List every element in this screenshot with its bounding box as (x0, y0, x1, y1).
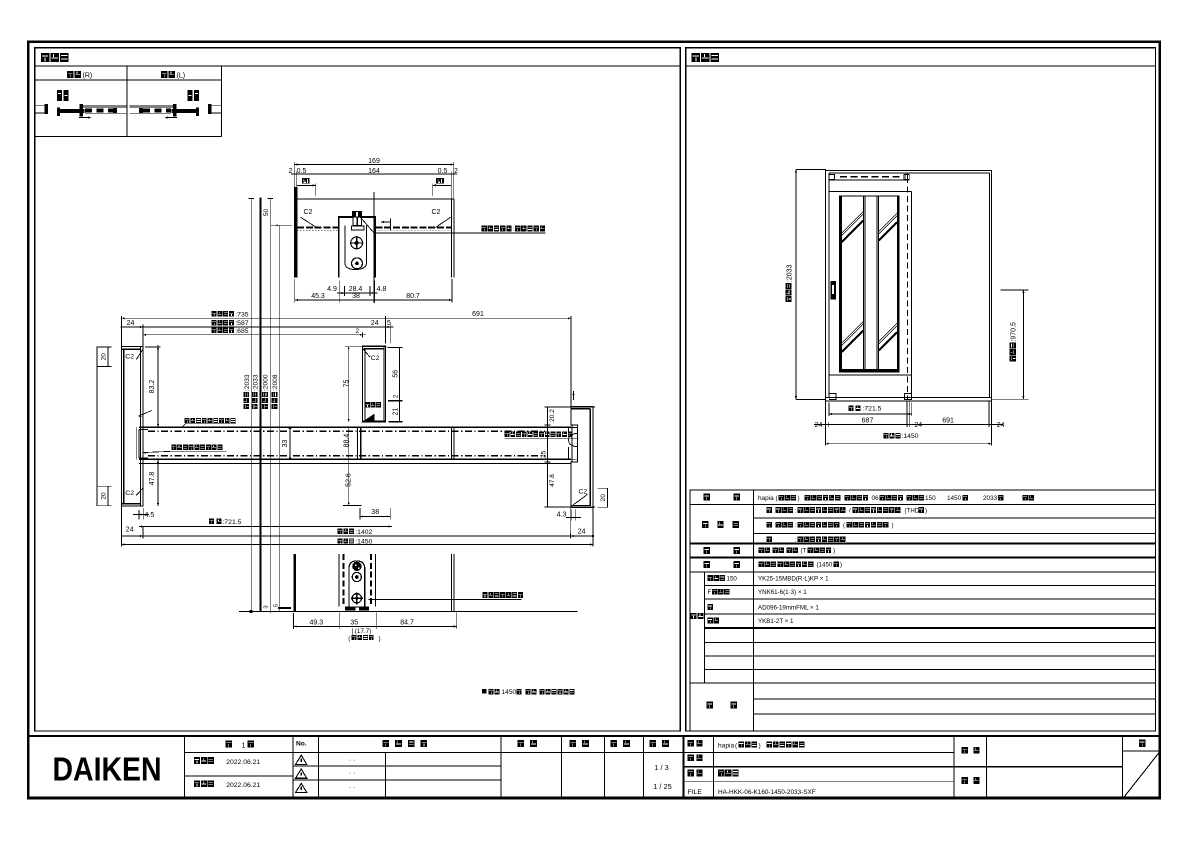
hanger bolt shaft (353, 217, 361, 226)
glass diagonal group lite2 upper (879, 213, 897, 231)
spec table row lines (690, 504, 1155, 506)
svg-text:24: 24 (914, 422, 922, 429)
svg-text:24: 24 (371, 320, 379, 327)
spec part label handle (708, 618, 713, 624)
front hidden rail dashed line (840, 176, 902, 178)
front pocket head edge pair (905, 173, 907, 180)
svg-text:24: 24 (127, 320, 135, 327)
dim chain 56/2/21 right of post (398, 348, 400, 422)
top detail dim 20 blob right (436, 178, 444, 183)
svg-text:· ·: · · (349, 757, 356, 764)
label hinban (product no) (688, 754, 694, 761)
svg-text:150: 150 (925, 495, 936, 502)
dim 75 post depth (348, 346, 350, 422)
svg-text:691: 691 (942, 417, 954, 424)
svg-text:· ·: · · (349, 770, 356, 777)
hanger bolt head (352, 211, 362, 217)
label danmenzu (section view title) (41, 53, 50, 62)
front leaf glass frame thick bars (839, 196, 842, 373)
door band outer lines (139, 426, 571, 428)
label shomenzu (front view title) (692, 53, 701, 62)
spec label yoshiki (type) (704, 494, 710, 501)
hojidate inner bold line (364, 349, 366, 421)
door band section mark pair (450, 427, 452, 459)
spec value finish row1 (767, 507, 772, 513)
svg-text:): ) (840, 562, 842, 569)
header sakusei (drawn) (611, 740, 618, 747)
front door handle (831, 281, 837, 300)
small up arrow above right jamb (573, 391, 575, 400)
schematic rail lines (130, 104, 174, 106)
svg-text:47.8: 47.8 (149, 472, 156, 486)
label shoin (962, 777, 968, 784)
svg-text:(T: (T (801, 548, 807, 555)
svg-text:1: 1 (242, 741, 246, 750)
svg-text:1 / 3: 1 / 3 (654, 763, 668, 772)
hanger housing rounded bottom (345, 262, 367, 270)
svg-text::587: :587 (235, 320, 248, 327)
schematic wall end (212, 104, 222, 106)
bottom detail guide housing arch (349, 561, 365, 607)
dim 4.5 door cap clearance (138, 510, 140, 520)
svg-text:50: 50 (263, 209, 270, 217)
plan top dim line L1 735 / 691 (122, 317, 572, 319)
svg-text:2: 2 (356, 328, 360, 335)
svg-text::2000: :2000 (263, 374, 270, 391)
svg-text:20.2: 20.2 (549, 409, 556, 422)
header hidaribiki (L) (161, 71, 167, 78)
svg-text:YK25-15MBD(R·L)KP × 1: YK25-15MBD(R·L)KP × 1 (758, 576, 829, 583)
plan bottom dim 1450 (338, 538, 343, 543)
spec part label fixed frame 150 (708, 575, 713, 581)
svg-text:2022.06.21: 2022.06.21 (226, 759, 260, 766)
left panel border (danmen-zu) (35, 48, 681, 731)
direction table grid (35, 79, 222, 81)
svg-text:F: F (708, 589, 712, 596)
dim 47.8 left jamb depth lower (157, 460, 159, 506)
height dim chain line C with rotated label (269, 198, 271, 613)
spec table column lines (753, 490, 755, 731)
right jamb rect with pocket groove (571, 407, 593, 508)
hanger door panel verticals (338, 216, 340, 277)
hanger nut bar (352, 226, 365, 230)
svg-text:691: 691 (472, 311, 484, 318)
svg-text:5: 5 (273, 604, 279, 607)
svg-text:35: 35 (350, 619, 358, 626)
svg-text:): ) (759, 742, 761, 749)
schematic latch-side post (79, 104, 83, 117)
hojidate cap label + hatch (365, 402, 370, 407)
spec label shikii (704, 561, 710, 568)
svg-text::2033: :2033 (786, 264, 793, 282)
seitei date row (185, 775, 294, 777)
revision history header (383, 740, 390, 747)
right panel border (shomen-zu) (686, 48, 1156, 731)
door V-cap arc at right jamb (569, 433, 577, 446)
height dim chain line A with rotated label (250, 198, 252, 611)
svg-text:2022.06.21: 2022.06.21 (226, 782, 260, 789)
schematic door panel (solid) (57, 109, 85, 113)
bottom detail sub-dim (17.7) (352, 628, 354, 635)
plan top dim line L3 685 / 2 (143, 334, 366, 336)
svg-text:(THD: (THD (905, 507, 920, 514)
header shukushaku (scale) (650, 740, 657, 747)
svg-text:0.5: 0.5 (438, 168, 448, 175)
leader note 3-side-frame V cap (505, 431, 510, 436)
svg-text:4.8: 4.8 (377, 286, 387, 293)
svg-text:): ) (379, 635, 381, 642)
svg-text:): ) (892, 522, 894, 529)
right jamb inner bold lines (589, 409, 591, 506)
svg-text::2008: :2008 (272, 374, 279, 391)
hanger bracket top plate (339, 216, 352, 218)
door band divider (door rear edge) (357, 427, 359, 459)
bottom detail right guide pair (450, 554, 452, 611)
right jamb 20 dim (597, 487, 608, 489)
svg-text:C2: C2 (432, 209, 441, 216)
schematic rail lines (83, 104, 127, 106)
hojidate post rect (pocket stile) (363, 346, 386, 422)
title band line left panel (35, 65, 681, 67)
bottom detail roller circle (352, 572, 361, 581)
svg-text:4.5: 4.5 (145, 512, 155, 519)
top detail inner dim line 4.9/28.4/4.8 (339, 281, 341, 298)
plan top dim extension lines (121, 316, 123, 347)
front leaf bottom rail line (829, 374, 911, 376)
front door leaf outline (829, 191, 911, 193)
svg-text:hapia: hapia (718, 742, 734, 749)
svg-text:38: 38 (371, 509, 379, 516)
glass diagonal group lite2 mid (879, 323, 897, 341)
sheet note: drawing shows 1450 width right-sliding (482, 689, 487, 694)
leader flat rail note (369, 599, 522, 601)
left jamb rect (fixed frame in plan) (122, 347, 144, 507)
bottom detail door panel verticals (338, 554, 340, 606)
front dim handle-height 970.5 (1022, 290, 1024, 400)
svg-text::1450: :1450 (902, 433, 919, 440)
spec value rail row (759, 561, 764, 567)
front leaf mid stile lines (862, 196, 864, 369)
title block header row line (185, 751, 684, 753)
svg-text::721.5: :721.5 (863, 406, 882, 413)
glass diagonal group lite1 upper (842, 212, 864, 234)
svg-text:24: 24 (997, 422, 1005, 429)
svg-text:(L): (L) (177, 73, 186, 80)
svg-text:25: 25 (541, 451, 548, 459)
svg-text:YKB1-2T × 1: YKB1-2T × 1 (758, 618, 794, 625)
revision rows lines (293, 765, 501, 767)
top detail pointer arrow at rail (381, 221, 390, 223)
svg-text:20: 20 (600, 494, 607, 502)
svg-text:80.7: 80.7 (406, 293, 420, 300)
schematic wall end (35, 104, 45, 106)
header kakunin (checked) (570, 740, 577, 747)
schematic latch-side post (173, 104, 177, 117)
svg-text:C2: C2 (125, 353, 134, 360)
svg-text:): ) (833, 548, 835, 555)
bottom detail dim line 49.3/35/84.7 (293, 613, 295, 629)
svg-text:24: 24 (578, 528, 586, 535)
spec part label door (708, 604, 713, 610)
spec label biko (remarks) (707, 702, 713, 709)
front pocket dashed line (906, 177, 908, 399)
svg-text:(R): (R) (83, 73, 93, 80)
svg-text:C2: C2 (304, 209, 313, 216)
top detail head underside heavy dashed line right part (375, 226, 451, 228)
leader note door-edge cap (171, 445, 176, 450)
svg-text:C2: C2 (371, 355, 380, 362)
top detail head box top line (294, 198, 454, 200)
spec value finish row2 (767, 522, 772, 528)
svg-text::721.5: :721.5 (223, 519, 242, 526)
spec label shiage (finish) (702, 521, 708, 528)
svg-text:): ) (925, 507, 927, 514)
dim 83.2 left jamb depth upper (157, 347, 159, 428)
schematic lower wall line (85, 112, 127, 114)
top detail centerline (373, 192, 375, 303)
svg-text:56: 56 (393, 370, 400, 378)
svg-text:2033: 2033 (983, 495, 998, 502)
label zumei (drawing name) (688, 770, 694, 777)
svg-text:4.9: 4.9 (327, 286, 337, 293)
front door feet (829, 393, 836, 399)
front dim frame width 1450 (884, 433, 889, 439)
svg-text:164: 164 (368, 168, 380, 175)
svg-text:45.3: 45.3 (311, 293, 325, 300)
first edition cell (226, 740, 233, 747)
plan bottom dim tobira-haba 721.5 (209, 519, 214, 524)
front dim extension lines (825, 402, 827, 446)
spec value handle row (759, 547, 764, 553)
spec value finish row3 (767, 536, 772, 542)
svg-text:No.: No. (296, 741, 307, 748)
svg-text:88.4: 88.4 (344, 434, 351, 448)
top detail dim 169 (294, 164, 454, 166)
spec label totte (handle) (704, 547, 710, 554)
floor line (239, 611, 578, 613)
dim 88.4 at door band (348, 427, 350, 459)
dim 50 at head (271, 224, 292, 226)
label sakumei (962, 747, 968, 754)
svg-text::1402: :1402 (355, 529, 372, 536)
svg-text:C2: C2 (579, 489, 588, 496)
svg-text:2: 2 (392, 394, 399, 398)
front head line (829, 179, 910, 181)
svg-text:1 / 25: 1 / 25 (653, 782, 672, 791)
schematic slide arrow (79, 117, 91, 119)
svg-text:150: 150 (727, 576, 738, 583)
svg-text:06: 06 (872, 495, 880, 502)
svg-text:2: 2 (454, 168, 458, 175)
svg-text:· ·: · · (349, 785, 356, 792)
page cell (1139, 740, 1146, 747)
header shonin (approved) (518, 740, 525, 747)
front frame corner blocks (829, 174, 835, 179)
page diagonal (1123, 752, 1159, 798)
bottom detail left frame post (293, 554, 296, 611)
hojidate bottom thick edge (363, 421, 386, 423)
schematic door panel (solid) (171, 109, 199, 113)
svg-text:28.4: 28.4 (349, 286, 363, 293)
svg-text::735: :735 (235, 311, 248, 318)
dim chain 20.2/25/47.8 at right jamb (547, 407, 549, 508)
spec table outer (690, 490, 1155, 731)
svg-text::685: :685 (235, 328, 248, 335)
svg-text::2033: :2033 (244, 374, 251, 391)
leader line tsurisha rail (hanging rail note) (360, 217, 374, 233)
bottom detail screw circle cross (352, 594, 361, 603)
top detail left frame post (thick) (294, 187, 297, 277)
front frame outer rect (826, 171, 992, 401)
left jamb inner bold lines (123, 349, 125, 504)
right block row lines (683, 751, 954, 753)
bottom detail screw circle filled (352, 562, 361, 571)
svg-text:20: 20 (100, 492, 107, 500)
tiny chain labels at floor (263, 605, 269, 608)
front dim frame-height 2033 (795, 170, 797, 400)
svg-text:24: 24 (126, 526, 134, 533)
dim 33 door thickness (289, 427, 291, 459)
svg-text:83.2: 83.2 (149, 380, 156, 394)
svg-text:1450: 1450 (947, 495, 962, 502)
svg-text:(17.7): (17.7) (355, 628, 371, 635)
svg-text:0.5: 0.5 (297, 168, 307, 175)
hanger housing inner verticals (344, 225, 346, 262)
svg-text:687: 687 (862, 417, 874, 424)
top detail bottom dim line 45.3/38/80.7 (295, 299, 452, 301)
spec label hinban (part numbers) (691, 613, 697, 619)
svg-text::2033: :2033 (252, 374, 259, 391)
left 20 dim bottom (97, 485, 112, 487)
svg-text:HA-HKK-06-K160-1450-2033-SXF: HA-HKK-06-K160-1450-2033-SXF (718, 789, 816, 796)
schematic open-position door (dashed) (143, 108, 171, 112)
svg-text:47.8: 47.8 (549, 474, 556, 487)
left 20 dim top (96, 347, 98, 507)
header migibiki (R) (67, 71, 73, 78)
value zumei sanmenzu (718, 770, 724, 777)
top detail head underside heavy dashed line left part (297, 226, 339, 228)
leader note dotted-line explanation (185, 418, 190, 423)
svg-text:(1450: (1450 (817, 562, 833, 569)
svg-text:4.3: 4.3 (557, 511, 567, 518)
right jamb inner groove lines (571, 425, 573, 462)
schematic tiny label (57, 90, 62, 101)
hojidate C2 + chamfer (363, 349, 370, 357)
svg-text:hapia: hapia (758, 495, 774, 502)
height dim chain line B thick with rotated label (260, 197, 262, 611)
svg-text:38: 38 (352, 293, 360, 300)
svg-text:3: 3 (263, 605, 269, 608)
svg-text:): ) (798, 495, 800, 502)
door end cap at left jamb (138, 429, 140, 458)
glass diagonal group lite1 mid (842, 322, 864, 344)
front frame inner lines (828, 173, 830, 398)
plan bottom extension lines (121, 506, 123, 547)
revision warning triangles (296, 755, 307, 764)
svg-text:84.7: 84.7 (400, 619, 414, 626)
kaitei date row (194, 780, 200, 787)
plan top dim line L2 24 / 587 / 5 (121, 326, 394, 328)
hanger roller wheel circle (352, 258, 363, 269)
svg-text:AD096-19mmFML × 1: AD096-19mmFML × 1 (758, 605, 819, 612)
svg-text:YNK61-6(1·3) × 1: YNK61-6(1·3) × 1 (758, 589, 807, 596)
top detail right edge double line (450, 199, 452, 277)
title block top line (28, 735, 1160, 737)
svg-text:20: 20 (100, 353, 107, 361)
schematic tiny label (194, 90, 199, 101)
svg-text:21: 21 (393, 408, 400, 416)
schematic slide arrow (166, 117, 178, 119)
svg-text:52.6: 52.6 (346, 473, 353, 487)
svg-text:DAIKEN: DAIKEN (53, 752, 162, 789)
schematic open-position door (dashed) (85, 108, 113, 112)
svg-text:169: 169 (368, 158, 380, 165)
schematic lower wall line (130, 112, 172, 114)
hanger roller screw circle (351, 237, 363, 249)
svg-text:2: 2 (289, 168, 293, 175)
bottom detail flat rail base (345, 607, 369, 611)
dim 52.6 below band (348, 459, 350, 505)
svg-text:75: 75 (343, 380, 350, 388)
top detail extension lines to box top (293, 166, 295, 199)
title block verticals (184, 736, 186, 798)
svg-text:FILE: FILE (688, 789, 703, 796)
svg-text:33: 33 (282, 440, 289, 448)
svg-text:24: 24 (815, 422, 823, 429)
height dim chain line D with rotated label (278, 225, 280, 611)
svg-text::970.5: :970.5 (1011, 322, 1018, 342)
title band line right panel (686, 65, 1156, 67)
svg-text:1450: 1450 (502, 689, 517, 696)
top detail dim 20 blob left (302, 178, 310, 183)
svg-text:49.3: 49.3 (309, 619, 323, 626)
front dim row 24/687/24/691/24 (814, 423, 1003, 425)
front dim door width 721.5 (849, 405, 854, 411)
top detail dim 164 with 2 and 0.5 (291, 173, 457, 175)
door band dashed inner lines (148, 430, 545, 432)
svg-text:C2: C2 (125, 490, 134, 497)
label meisho (name) (688, 740, 694, 747)
